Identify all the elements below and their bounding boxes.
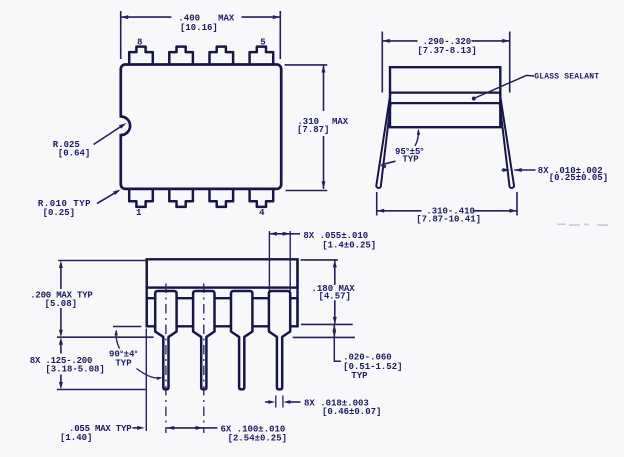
svg-text:8: 8 <box>137 37 142 47</box>
svg-text:[4.57]: [4.57] <box>319 292 351 302</box>
top pin 6 (top view) <box>210 47 234 66</box>
dimension .310-.410 [7.87-10.41] lead span <box>376 192 378 216</box>
dimension 8X .018+/-.003 [0.46+/-0.07] lead width <box>275 396 277 408</box>
package body upper part (side view) <box>147 259 298 287</box>
dimension 8X .010+/-.002 [0.25+/-0.05] lead thickness <box>502 169 503 171</box>
svg-text:[7.87]: [7.87] <box>297 125 329 135</box>
leader to body corner <box>97 191 119 204</box>
svg-text:[5.08]: [5.08] <box>45 299 77 309</box>
right lead (end view) <box>500 94 514 188</box>
svg-text:[2.54±0.25]: [2.54±0.25] <box>228 433 287 443</box>
top pin 5 (top view) <box>250 47 274 66</box>
glass sealant band lower line <box>390 102 500 104</box>
svg-text:[10.16]: [10.16] <box>180 23 218 33</box>
svg-text:MAX: MAX <box>332 117 349 127</box>
centerline lead 1 <box>165 284 167 434</box>
centerline lead 2 <box>203 284 205 434</box>
svg-text:4: 4 <box>259 208 265 218</box>
svg-text:[0.25±0.05]: [0.25±0.05] <box>549 173 608 183</box>
svg-text:TYP: TYP <box>351 371 368 381</box>
svg-text:TYP: TYP <box>402 155 419 165</box>
glass sealant band upper line <box>390 91 500 93</box>
svg-text:[0.25]: [0.25] <box>43 208 75 218</box>
dimension .020-.060 [0.51-1.52] TYP standoff <box>333 324 335 337</box>
top pin 8 (top view) <box>129 47 153 66</box>
bottom pin 2 (top view) <box>169 188 193 207</box>
dimension .200 MAX TYP [5.08] body height <box>58 260 145 262</box>
dimension 6X .100+/-.010 [2.54+/-0.25] lead pitch <box>167 427 203 429</box>
svg-text:[0.46±0.07]: [0.46±0.07] <box>322 407 381 417</box>
lead 3 shoulder and pin (side view) <box>231 291 252 389</box>
lead 1 shoulder and pin (side view) <box>155 291 176 389</box>
dimension .310 MAX [7.87] body depth <box>285 64 328 66</box>
svg-text:MAX: MAX <box>218 14 235 24</box>
package body (top view) <box>121 65 281 189</box>
leader to sealant band <box>474 75 534 98</box>
dimension .400 MAX [10.16] body width <box>120 11 122 59</box>
dimension 8X .055+/-.010 [1.4+/-0.25] shoulder width <box>268 231 270 291</box>
pin-1 index notch <box>119 118 123 134</box>
svg-text:1: 1 <box>136 208 142 218</box>
svg-text:[3.18-5.08]: [3.18-5.08] <box>45 364 104 374</box>
svg-text:[7.87-10.41]: [7.87-10.41] <box>416 215 481 225</box>
bottom pin 4 (top view) <box>250 188 274 207</box>
leader to left lead <box>382 161 396 165</box>
top pin 7 (top view) <box>169 47 193 66</box>
bottom pin 1 (top view) <box>129 188 153 207</box>
svg-text:[1.4±0.25]: [1.4±0.25] <box>322 240 376 250</box>
lead 4 shoulder and pin (side view) <box>269 291 290 389</box>
package body lower band (side view) <box>147 298 298 326</box>
right edge connector <box>296 259 298 326</box>
leader to notch <box>94 125 125 145</box>
leader to body bottom <box>415 131 418 147</box>
extension line band bottom right <box>301 323 353 325</box>
lead 2 shoulder and pin (side view) <box>193 291 214 389</box>
extension line seating plane right <box>293 336 355 338</box>
svg-text:[1.40]: [1.40] <box>60 433 92 443</box>
dimension .290-.320 [7.37-8.13] body width <box>381 32 383 93</box>
left edge connector <box>145 259 147 326</box>
bottom pin 3 (top view) <box>210 188 234 207</box>
dimension 8X .125-.200 [3.18-5.08] lead length <box>60 344 62 354</box>
left lead (end view) <box>376 94 390 188</box>
package body (end view) <box>390 67 500 127</box>
dimension .180 MAX [4.57] <box>301 259 338 261</box>
svg-text:GLASS SEALANT: GLASS SEALANT <box>534 72 599 81</box>
svg-text:[7.37-8.13]: [7.37-8.13] <box>417 46 476 56</box>
svg-text:5: 5 <box>260 37 265 47</box>
svg-text:[0.64]: [0.64] <box>58 149 90 159</box>
dimension 90 deg +/-4 deg TYP lead perpendicularity <box>113 326 141 328</box>
scan artifact marks <box>557 224 608 226</box>
svg-text:.020-.060: .020-.060 <box>343 353 392 363</box>
svg-text:TYP: TYP <box>115 358 132 368</box>
extension line body edge down <box>145 329 147 432</box>
